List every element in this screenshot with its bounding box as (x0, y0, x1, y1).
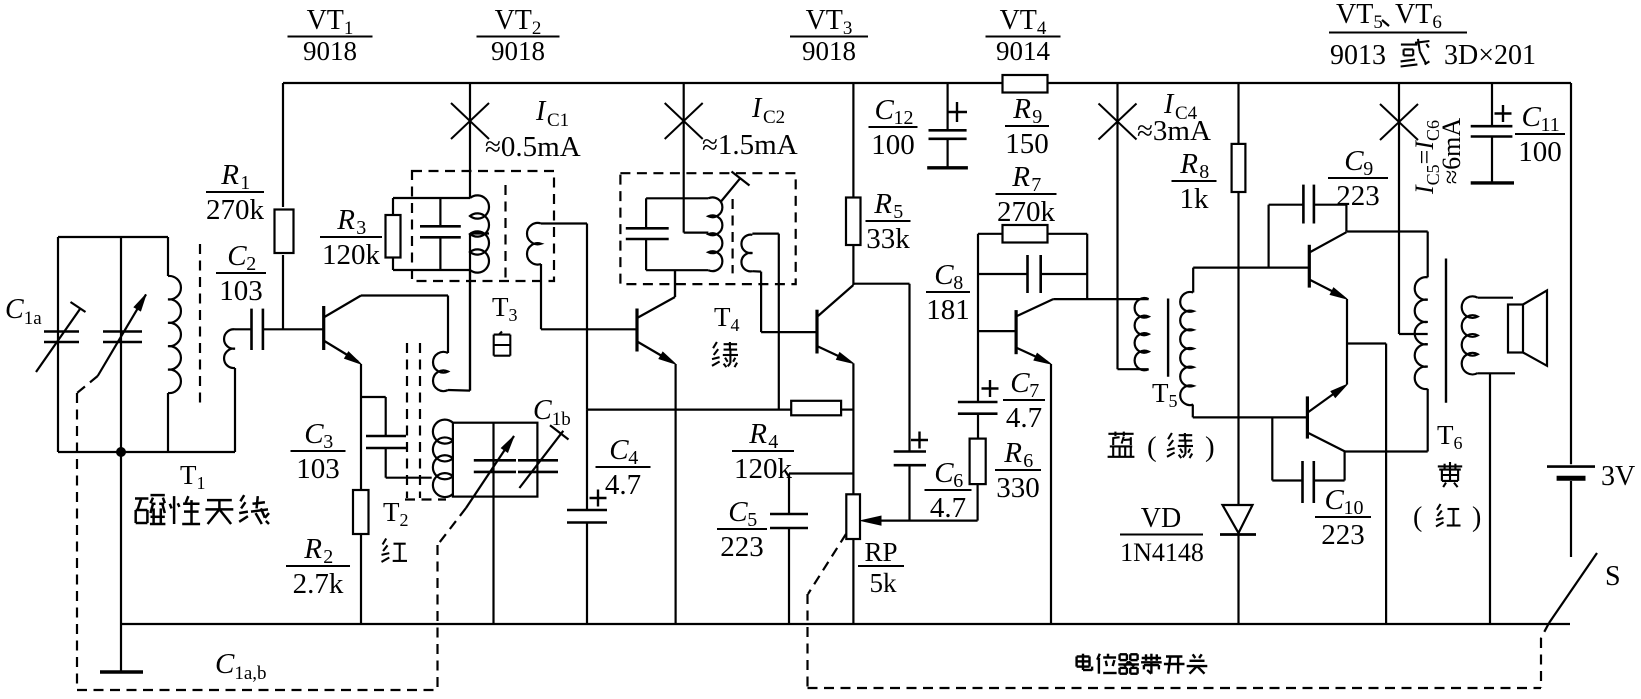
svg-text:120k: 120k (322, 239, 381, 271)
svg-text:(: ( (1147, 431, 1157, 463)
svg-text:150: 150 (1005, 128, 1049, 160)
svg-text:2: 2 (246, 253, 256, 275)
svg-text:2: 2 (323, 546, 333, 568)
svg-text:R: R (873, 188, 892, 220)
svg-text:R: R (748, 418, 767, 450)
svg-text:11: 11 (1541, 114, 1560, 136)
svg-text:): ) (1472, 502, 1481, 533)
svg-text:9: 9 (1032, 106, 1042, 128)
svg-text:≈6mA: ≈6mA (1437, 118, 1466, 184)
svg-text:223: 223 (1336, 180, 1380, 212)
svg-text:C: C (728, 496, 748, 528)
svg-text:223: 223 (1321, 519, 1365, 551)
svg-text:I: I (535, 96, 547, 127)
svg-text:9018: 9018 (303, 36, 357, 66)
svg-text:120k: 120k (734, 453, 793, 485)
svg-text:S: S (1605, 561, 1621, 592)
svg-text:33k: 33k (866, 223, 910, 255)
svg-text:12: 12 (894, 107, 914, 129)
svg-text:3: 3 (323, 431, 333, 453)
svg-text:103: 103 (219, 275, 263, 307)
svg-text:8: 8 (953, 272, 963, 294)
svg-text:C: C (609, 434, 629, 466)
svg-text:C2: C2 (763, 107, 785, 128)
svg-text:6: 6 (953, 470, 963, 492)
svg-text:R: R (220, 159, 239, 191)
svg-text:10: 10 (1344, 497, 1364, 519)
svg-text:C: C (227, 240, 247, 272)
svg-text:3V: 3V (1601, 461, 1635, 492)
svg-text:100: 100 (1518, 136, 1562, 168)
svg-text:3: 3 (356, 217, 366, 239)
svg-text:C: C (1010, 367, 1030, 399)
svg-text:270k: 270k (997, 196, 1056, 228)
svg-text:9: 9 (1363, 158, 1373, 180)
svg-text:R: R (1011, 161, 1030, 193)
svg-text:9018: 9018 (491, 36, 545, 66)
svg-text:≈1.5mA: ≈1.5mA (702, 129, 798, 161)
svg-text:1N4148: 1N4148 (1120, 538, 1204, 567)
svg-text:C: C (1325, 484, 1345, 516)
svg-text:R: R (336, 204, 355, 236)
svg-text:1: 1 (240, 172, 250, 194)
svg-text:6: 6 (1023, 450, 1033, 472)
svg-text:I: I (751, 93, 763, 124)
svg-text:R: R (1003, 437, 1022, 469)
svg-text:5: 5 (893, 201, 903, 223)
svg-text:C: C (1522, 101, 1542, 133)
svg-text:9013: 9013 (1330, 40, 1386, 71)
svg-text:≈0.5mA: ≈0.5mA (485, 131, 581, 163)
svg-text:C: C (934, 457, 954, 489)
svg-text:1k: 1k (1180, 183, 1210, 215)
svg-text:9018: 9018 (802, 36, 856, 66)
svg-text:4: 4 (768, 431, 778, 453)
svg-text:7: 7 (1029, 380, 1039, 402)
svg-text:223: 223 (720, 531, 764, 563)
svg-text:R: R (1012, 93, 1031, 125)
svg-text:9014: 9014 (996, 36, 1051, 66)
svg-text:7: 7 (1031, 174, 1041, 196)
svg-text:330: 330 (996, 472, 1040, 504)
svg-text:): ) (1205, 431, 1215, 463)
svg-text:RP: RP (864, 537, 897, 567)
svg-text:2.7k: 2.7k (293, 568, 344, 600)
svg-text:C: C (875, 94, 895, 126)
svg-text:R: R (1179, 148, 1198, 180)
svg-text:C1: C1 (547, 110, 569, 131)
svg-text:C: C (1344, 145, 1364, 177)
svg-text:4.7: 4.7 (930, 492, 966, 524)
svg-text:8: 8 (1199, 161, 1209, 183)
svg-text:103: 103 (296, 453, 340, 485)
svg-text:(: ( (1413, 502, 1422, 533)
svg-text:270k: 270k (206, 194, 265, 226)
svg-text:VD: VD (1141, 503, 1181, 534)
svg-text:5k: 5k (870, 568, 898, 598)
svg-text:C: C (304, 418, 324, 450)
svg-text:4.7: 4.7 (1006, 402, 1042, 434)
svg-text:3D×201: 3D×201 (1444, 40, 1536, 71)
svg-text:181: 181 (926, 294, 970, 326)
svg-text:4.7: 4.7 (605, 469, 641, 501)
svg-text:C: C (934, 259, 954, 291)
svg-text:5: 5 (747, 509, 757, 531)
svg-text:100: 100 (871, 129, 915, 161)
svg-text:R: R (303, 533, 322, 565)
svg-text:≈3mA: ≈3mA (1137, 115, 1211, 147)
svg-text:4: 4 (628, 447, 638, 469)
